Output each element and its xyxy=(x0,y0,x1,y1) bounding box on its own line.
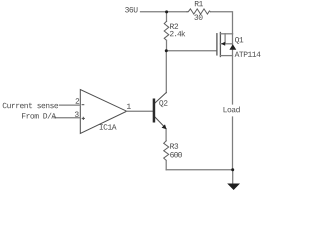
svg-text:1: 1 xyxy=(126,103,131,112)
svg-text:36U: 36U xyxy=(125,6,139,15)
svg-text:3: 3 xyxy=(74,111,79,120)
svg-text:2.4k: 2.4k xyxy=(169,30,185,39)
svg-text:From D/A: From D/A xyxy=(21,112,56,121)
svg-text:30: 30 xyxy=(194,14,203,23)
svg-text:2: 2 xyxy=(75,98,80,107)
svg-text:Load: Load xyxy=(223,106,241,115)
svg-text:600: 600 xyxy=(170,151,183,160)
svg-text:Q1: Q1 xyxy=(235,36,244,45)
svg-text:Current sense: Current sense xyxy=(2,102,59,111)
svg-text:R1: R1 xyxy=(194,0,203,9)
svg-text:IC1A: IC1A xyxy=(99,124,117,133)
svg-text:Q2: Q2 xyxy=(159,100,168,109)
svg-text:R3: R3 xyxy=(170,143,179,152)
svg-text:ATP114: ATP114 xyxy=(235,51,262,60)
